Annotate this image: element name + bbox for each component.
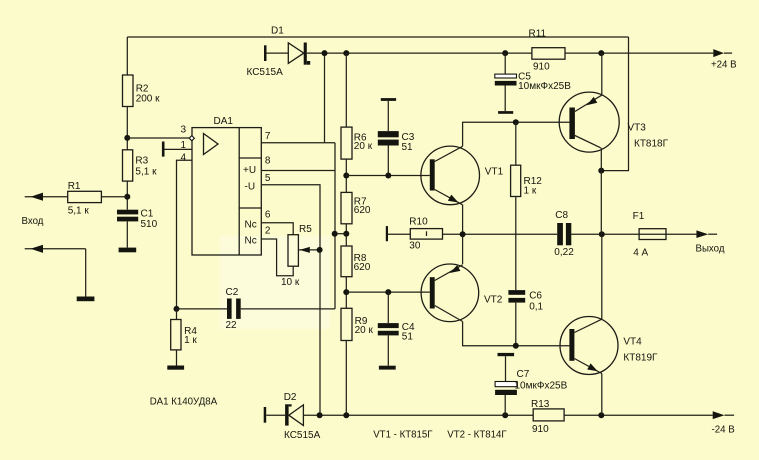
resistor R12 xyxy=(511,122,543,196)
zener diode D1 xyxy=(247,26,311,79)
wire C6 to VT4 base line xyxy=(515,303,517,346)
capacitor C7 electrolytic xyxy=(495,369,567,395)
resistor R13 xyxy=(531,399,564,435)
node R7/R8 junction xyxy=(343,231,349,237)
node R1/R3/C1 junction xyxy=(124,194,130,200)
wire R10 to C8 xyxy=(443,233,558,235)
svg-text:5,1 к: 5,1 к xyxy=(135,166,157,177)
label Nc 2 xyxy=(245,236,257,247)
wire R11 to +24V arrow xyxy=(565,52,713,54)
ground below C4 xyxy=(379,366,396,370)
resistor R1 xyxy=(68,181,102,217)
wire R8 to node xyxy=(345,277,347,309)
op-amp U1 DA1 body xyxy=(192,116,261,255)
wire D2 to R13 xyxy=(303,414,533,416)
capacitor C1 xyxy=(117,209,158,230)
wire pin 5 xyxy=(261,173,320,415)
svg-text:10мкФх25В: 10мкФх25В xyxy=(515,381,568,392)
node wiper junction xyxy=(317,247,323,253)
wire C1 to ground xyxy=(126,221,128,247)
resistor R4 xyxy=(171,309,198,366)
wire D1 to R11 xyxy=(307,52,532,54)
terminal arrow -24V xyxy=(712,411,735,435)
svg-text:7: 7 xyxy=(265,131,271,142)
transistor Q2 VT2 xyxy=(421,264,503,322)
wire C7 to bottom line xyxy=(504,395,506,415)
svg-text:R11: R11 xyxy=(529,29,547,40)
wire C5 bottom xyxy=(504,86,506,112)
wire C8 to F1 xyxy=(571,233,696,235)
caption VT1 type xyxy=(373,430,433,441)
svg-text:20 к: 20 к xyxy=(354,141,373,152)
wire VT4 emitter down xyxy=(601,374,603,416)
svg-text:R1: R1 xyxy=(68,181,81,192)
svg-text:F1: F1 xyxy=(633,211,645,222)
wire stub to D2 xyxy=(266,414,285,416)
transistor Q4 VT4 xyxy=(560,317,658,375)
D1 left stub xyxy=(264,45,267,61)
transistor Q3 VT3 xyxy=(559,92,668,152)
svg-text:6: 6 xyxy=(265,210,271,221)
wire pin 8 xyxy=(261,156,335,171)
resistor R11 xyxy=(529,29,566,73)
svg-text:1: 1 xyxy=(181,140,187,151)
terminal arrow output xyxy=(696,230,725,254)
svg-text:8: 8 xyxy=(265,156,271,167)
wire C4 to ground xyxy=(387,335,389,365)
wire C5 top xyxy=(504,53,506,74)
svg-text:КС515А: КС515А xyxy=(247,67,284,78)
node VT3 emitter top xyxy=(598,50,604,56)
svg-text:0,22: 0,22 xyxy=(554,247,574,258)
node R12 top xyxy=(513,119,519,125)
node C7 bottom xyxy=(502,412,508,418)
capacitor C8 xyxy=(554,210,574,258)
wire D1 node to pin 7 xyxy=(324,53,326,143)
svg-text:R13: R13 xyxy=(531,399,550,410)
caption VT2 type xyxy=(447,430,507,441)
svg-text:R5: R5 xyxy=(299,224,312,235)
wire pin 4 xyxy=(177,152,193,309)
terminal arrow +24V xyxy=(711,49,737,70)
svg-text:5,1 к: 5,1 к xyxy=(68,206,90,217)
wire pin 3 from R2/R3 node xyxy=(127,125,189,139)
wire D1 line to R6 xyxy=(345,53,347,127)
ground below C1 xyxy=(119,248,137,253)
C3 top stub xyxy=(381,98,396,101)
label Nc 1 xyxy=(245,220,257,231)
resistor R9 xyxy=(341,308,374,340)
node C5 top xyxy=(502,50,508,56)
node D1 line x324 xyxy=(322,50,328,56)
wire VT2 base line xyxy=(346,291,430,293)
capacitor C4 xyxy=(378,322,415,343)
svg-text:5: 5 xyxy=(265,173,271,184)
svg-text:-U: -U xyxy=(245,182,256,193)
wire R2 to node xyxy=(126,107,128,150)
node bus tap xyxy=(332,231,338,237)
svg-text:Nc: Nc xyxy=(245,220,257,231)
transistor Q1 VT1 xyxy=(421,146,504,205)
svg-text:DA1: DA1 xyxy=(214,116,234,127)
node VT3 collector junction xyxy=(598,168,604,174)
node C6 bottom xyxy=(513,343,519,349)
resistor R7 xyxy=(341,192,371,223)
svg-text:C6: C6 xyxy=(529,291,542,302)
resistor R3 xyxy=(123,150,158,181)
wire node to C4 xyxy=(387,292,389,323)
C7 top stub xyxy=(498,353,515,356)
svg-text:51: 51 xyxy=(402,142,414,153)
wire R12 to C6 xyxy=(515,197,517,291)
caption DA1 type xyxy=(150,397,218,408)
svg-text:10 к: 10 к xyxy=(281,277,300,288)
wire VT1 collector up to VT3 base line xyxy=(463,122,570,146)
svg-text:2: 2 xyxy=(265,225,271,236)
svg-text:Nc: Nc xyxy=(245,236,257,247)
pin 1 stub xyxy=(162,140,192,156)
svg-text:C8: C8 xyxy=(555,210,568,221)
resistor R10 xyxy=(409,217,442,252)
svg-text:510: 510 xyxy=(141,219,158,230)
svg-text:3: 3 xyxy=(181,125,187,136)
node C4 junction xyxy=(385,289,391,295)
wire R3 to node xyxy=(126,181,128,210)
R5 wiper arrow xyxy=(298,247,319,253)
svg-text:200 к: 200 к xyxy=(136,94,160,105)
wire stub to C7 xyxy=(505,356,507,381)
svg-text:20 к: 20 к xyxy=(355,325,374,336)
svg-text:КС515А: КС515А xyxy=(284,430,321,441)
wire VT3/VT4 collector link xyxy=(601,234,603,319)
wire C3 to VT1 base line xyxy=(387,146,389,176)
input ground terminal arrow xyxy=(25,245,86,297)
capacitor C6 xyxy=(508,290,543,312)
label +U xyxy=(243,165,256,176)
node R8/R9 junction xyxy=(343,289,349,295)
svg-text:10мкФх25В: 10мкФх25В xyxy=(518,81,571,92)
svg-text:VT2: VT2 xyxy=(484,295,503,306)
input terminal arrow xyxy=(25,193,68,201)
svg-text:51: 51 xyxy=(402,332,414,343)
svg-text:30: 30 xyxy=(409,240,421,251)
svg-text:+24 В: +24 В xyxy=(711,59,737,70)
ground below R4 xyxy=(167,366,184,370)
svg-text:VT2 - КТ814Г: VT2 - КТ814Г xyxy=(447,430,507,441)
svg-text:C1: C1 xyxy=(141,209,154,220)
wire stub to C3 xyxy=(387,101,389,131)
wire R6 to node xyxy=(345,159,347,192)
C5 bottom stub xyxy=(498,111,513,114)
wire R13 to -24V arrow xyxy=(564,414,713,416)
svg-text:R3: R3 xyxy=(135,156,148,167)
capacitor C3 xyxy=(378,131,415,153)
D2 left stub xyxy=(264,407,267,423)
node D1 line x346 xyxy=(343,50,349,56)
wire VT3 emitter up xyxy=(601,53,603,95)
node R4/C2 junction xyxy=(174,306,180,312)
light patch overlay xyxy=(220,236,330,329)
svg-text:R10: R10 xyxy=(409,217,428,228)
node pin 3 diamond xyxy=(189,136,194,141)
wire R7 to node xyxy=(345,224,347,246)
svg-text:DA1 К140УД8А: DA1 К140УД8А xyxy=(150,397,218,408)
node C3 junction xyxy=(385,173,391,179)
wire VT3 collector down xyxy=(600,148,602,234)
op-amp triangle symbol xyxy=(204,134,219,155)
svg-text:VT1: VT1 xyxy=(485,167,504,178)
svg-text:620: 620 xyxy=(354,262,371,273)
potentiometer R5 xyxy=(281,224,312,288)
node VT1/VT2 emitters xyxy=(460,231,466,237)
svg-text:Выход: Выход xyxy=(696,244,725,255)
svg-text:D2: D2 xyxy=(284,392,297,403)
node R6/R7 junction xyxy=(343,173,349,179)
wire R1 to node xyxy=(101,196,127,198)
node VT4 emitter bottom xyxy=(598,412,604,418)
resistor R8 xyxy=(341,246,371,277)
wire pin 7 xyxy=(261,131,335,143)
svg-text:1 к: 1 к xyxy=(524,186,537,197)
wire stub to R10 xyxy=(388,233,410,235)
wire pin 6 to R5 xyxy=(261,210,293,235)
svg-text:КТ819Г: КТ819Г xyxy=(623,353,658,364)
label -U xyxy=(245,182,256,193)
svg-text:VT3: VT3 xyxy=(628,123,647,134)
svg-text:910: 910 xyxy=(532,424,549,435)
svg-text:1 к: 1 к xyxy=(184,335,197,346)
wire R2 column xyxy=(126,37,128,75)
svg-text:910: 910 xyxy=(533,62,550,73)
svg-text:КТ818Г: КТ818Г xyxy=(634,139,669,150)
capacitor C5 electrolytic xyxy=(495,71,571,92)
svg-text:C7: C7 xyxy=(517,369,530,380)
svg-text:22: 22 xyxy=(226,320,238,331)
svg-text:VT4: VT4 xyxy=(623,336,642,347)
wire right bus from top rail to VT3 collector node xyxy=(601,37,628,171)
svg-text:4 А: 4 А xyxy=(633,248,648,259)
svg-text:4: 4 xyxy=(181,152,187,163)
node R2/R3 junction xyxy=(124,135,130,141)
label Вход xyxy=(22,216,44,227)
svg-text:0,1: 0,1 xyxy=(529,302,543,313)
fuse F1 xyxy=(633,211,666,259)
capacitor C2 xyxy=(177,287,336,331)
svg-text:620: 620 xyxy=(354,205,371,216)
wire top rail xyxy=(127,36,628,38)
svg-text:VT1 - КТ815Г: VT1 - КТ815Г xyxy=(373,430,433,441)
resistor R2 xyxy=(123,75,161,107)
wire pin 2 to R5 bottom xyxy=(261,225,293,275)
svg-text:D1: D1 xyxy=(271,26,284,37)
resistor R6 xyxy=(341,127,373,159)
svg-text:C2: C2 xyxy=(226,287,239,298)
node R9 bottom xyxy=(343,412,349,418)
wire stub to D1 xyxy=(267,52,289,54)
wire VT1 emitter down to output line xyxy=(462,205,464,264)
wire VT2 collector down to VT4 base line xyxy=(463,322,570,346)
wire R7/R8 node to bus xyxy=(335,233,347,235)
svg-text:Вход: Вход xyxy=(22,216,44,227)
node pin5 bus bottom xyxy=(317,412,323,418)
wire pin7/8 vertical bus to C2 xyxy=(334,143,336,309)
node VT3/VT4 collectors xyxy=(599,231,605,237)
zener diode D2 xyxy=(284,392,321,441)
wire R9 to bottom line xyxy=(345,341,347,416)
wire VT1 base line xyxy=(346,175,430,177)
R10 left stub xyxy=(386,226,388,241)
svg-text:-24 В: -24 В xyxy=(712,425,735,436)
ground below input xyxy=(77,297,95,302)
svg-text:+U: +U xyxy=(243,165,256,176)
